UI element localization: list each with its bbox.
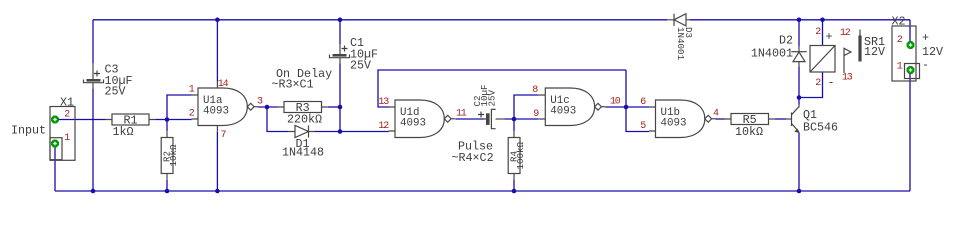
svg-text:3: 3 — [257, 97, 263, 108]
junction D2/coil/collector node — [797, 95, 802, 100]
wire U1d out to C2 — [455, 118, 484, 120]
wire bottom rail — [55, 190, 910, 192]
pin X2-1 — [907, 66, 914, 73]
wire U1b out to R5 — [716, 118, 725, 120]
wire Q1 collector — [798, 98, 800, 105]
connector X1 — [50, 96, 75, 161]
junction top rail D2 — [797, 18, 802, 23]
wire node to U1c pin8 riser — [514, 95, 539, 119]
wire feedback U1d pin13 — [378, 70, 626, 107]
wire C2 to node — [504, 118, 538, 120]
diode D1 — [282, 125, 324, 159]
junction C2/R4/U1c node — [512, 117, 517, 122]
NAND gate U1c (4093) — [532, 85, 621, 126]
svg-text:10kΩ: 10kΩ — [168, 144, 179, 167]
wire D2 bottom — [798, 66, 800, 97]
transistor Q1 — [786, 105, 838, 135]
wire R2 top — [166, 120, 168, 132]
wire R1 to U1a inputs — [156, 95, 192, 120]
NAND gate U1d (4093) — [378, 97, 466, 138]
connector X2 — [892, 15, 944, 82]
relay SR1 contact — [840, 28, 885, 84]
svg-text:2: 2 — [897, 35, 903, 46]
wire top rail left — [93, 19, 667, 21]
resistor R2 — [161, 131, 179, 180]
wire R3 right to C1 node — [328, 106, 340, 108]
svg-text:4: 4 — [713, 109, 719, 120]
junction top rail C1 — [338, 18, 343, 23]
junction ground C3 — [91, 189, 96, 194]
junction D1/pin12 node — [338, 129, 343, 134]
junction top rail relay coil — [820, 18, 825, 23]
svg-text:4093: 4093 — [203, 106, 229, 118]
junction ground R2 — [165, 189, 170, 194]
wire D1 cathode to U1d pin12 — [315, 131, 389, 133]
wire C3 top drop — [92, 20, 94, 63]
pin X2-2 — [907, 41, 914, 48]
capacitor C3 — [84, 63, 133, 99]
wire relay coil top — [822, 20, 824, 46]
svg-text:~R4×C2: ~R4×C2 — [452, 151, 494, 165]
junction top rail U1a pin14 — [215, 18, 220, 23]
pin X1-1 — [51, 140, 58, 147]
svg-text:X2: X2 — [892, 15, 906, 29]
svg-text:1kΩ: 1kΩ — [113, 125, 134, 139]
resistor R5 — [725, 113, 775, 139]
wire R4 bottom — [513, 180, 515, 191]
wire node down D1 row — [339, 107, 341, 132]
svg-text:12: 12 — [378, 121, 389, 132]
svg-text:-: - — [828, 76, 835, 90]
NAND gate U1b (4093) — [640, 97, 719, 138]
junction ground U1a pin7 — [215, 189, 220, 194]
wire C1 top — [339, 20, 341, 44]
svg-text:14: 14 — [218, 79, 229, 90]
wire C1 bottom to node — [339, 64, 341, 108]
wire top rail right — [690, 19, 911, 21]
svg-text:5: 5 — [640, 121, 646, 132]
svg-text:2: 2 — [815, 27, 821, 38]
wire R4 top — [513, 119, 515, 131]
wire Q1 emitter to ground — [798, 133, 800, 192]
svg-text:25V: 25V — [105, 85, 126, 99]
svg-text:2: 2 — [815, 78, 821, 89]
svg-text:100kΩ: 100kΩ — [515, 141, 526, 169]
wire U1a pin14 to rail — [216, 20, 218, 82]
capacitor C1 — [330, 36, 379, 73]
relay SR1 coil — [810, 27, 835, 90]
wire R5 to Q1 base — [775, 118, 786, 120]
junction ground Q1 emitter — [797, 189, 802, 194]
wire U1a output node — [258, 107, 289, 132]
svg-text:12V: 12V — [864, 45, 885, 59]
pin X1-2 — [51, 116, 58, 123]
svg-text:2: 2 — [189, 109, 195, 120]
svg-text:1N4148: 1N4148 — [282, 145, 324, 159]
svg-text:13: 13 — [842, 73, 853, 84]
svg-text:+: + — [922, 31, 929, 45]
svg-text:1N4001: 1N4001 — [751, 47, 793, 61]
resistor R4 — [508, 131, 526, 180]
svg-text:X1: X1 — [60, 96, 74, 110]
svg-text:220kΩ: 220kΩ — [287, 112, 322, 126]
junction R3/C1 node — [338, 105, 343, 110]
svg-text:1: 1 — [189, 85, 195, 96]
wire X1 pin1 to ground rail — [54, 144, 56, 192]
diode D3 — [667, 14, 694, 61]
svg-text:10: 10 — [610, 97, 621, 108]
wire feedback riser to U1b pin5 — [626, 70, 649, 132]
svg-text:4093: 4093 — [550, 106, 576, 118]
svg-text:1: 1 — [897, 62, 903, 73]
wire R2 bottom — [166, 180, 168, 191]
svg-text:1N4001: 1N4001 — [675, 27, 686, 61]
svg-text:13: 13 — [378, 97, 389, 108]
svg-text:7: 7 — [221, 130, 227, 141]
svg-text:1: 1 — [64, 133, 70, 144]
NAND gate U1a (4093) — [189, 79, 263, 141]
wire U1a pin7 to ground — [216, 132, 218, 191]
svg-text:~R3×C1: ~R3×C1 — [272, 77, 314, 91]
resistor R3 — [278, 101, 328, 127]
wire X2 pin2 to rail — [909, 20, 911, 43]
svg-text:10kΩ: 10kΩ — [735, 125, 763, 139]
wire relay coil bottom to collector node — [799, 72, 823, 98]
wire C3 bottom drop — [92, 89, 94, 191]
svg-text:-: - — [922, 58, 929, 72]
svg-text:12: 12 — [840, 28, 851, 39]
svg-text:11: 11 — [456, 109, 467, 120]
svg-text:BC546: BC546 — [803, 121, 838, 135]
svg-text:4093: 4093 — [661, 118, 687, 130]
wire X1 pin2 to R1 — [55, 119, 106, 121]
junction R1/R2/U1a node — [165, 117, 170, 122]
wire D2 top — [798, 20, 800, 47]
svg-text:+: + — [826, 30, 833, 44]
junction ground R4 — [512, 189, 517, 194]
svg-text:12V: 12V — [922, 45, 943, 59]
wire U1c out to U1b pin6 — [605, 106, 649, 108]
svg-text:25V: 25V — [487, 89, 498, 106]
svg-text:25V: 25V — [350, 59, 371, 73]
junction U1a out node — [265, 105, 270, 110]
svg-text:4093: 4093 — [400, 118, 426, 130]
wire X2 pin1 to ground — [909, 73, 911, 191]
capacitor C2 — [472, 84, 504, 128]
svg-text:D2: D2 — [779, 34, 793, 48]
diode D2 — [751, 34, 807, 67]
svg-text:Input: Input — [11, 124, 46, 138]
resistor R1 — [106, 113, 156, 138]
junction U1c out node — [624, 105, 629, 110]
